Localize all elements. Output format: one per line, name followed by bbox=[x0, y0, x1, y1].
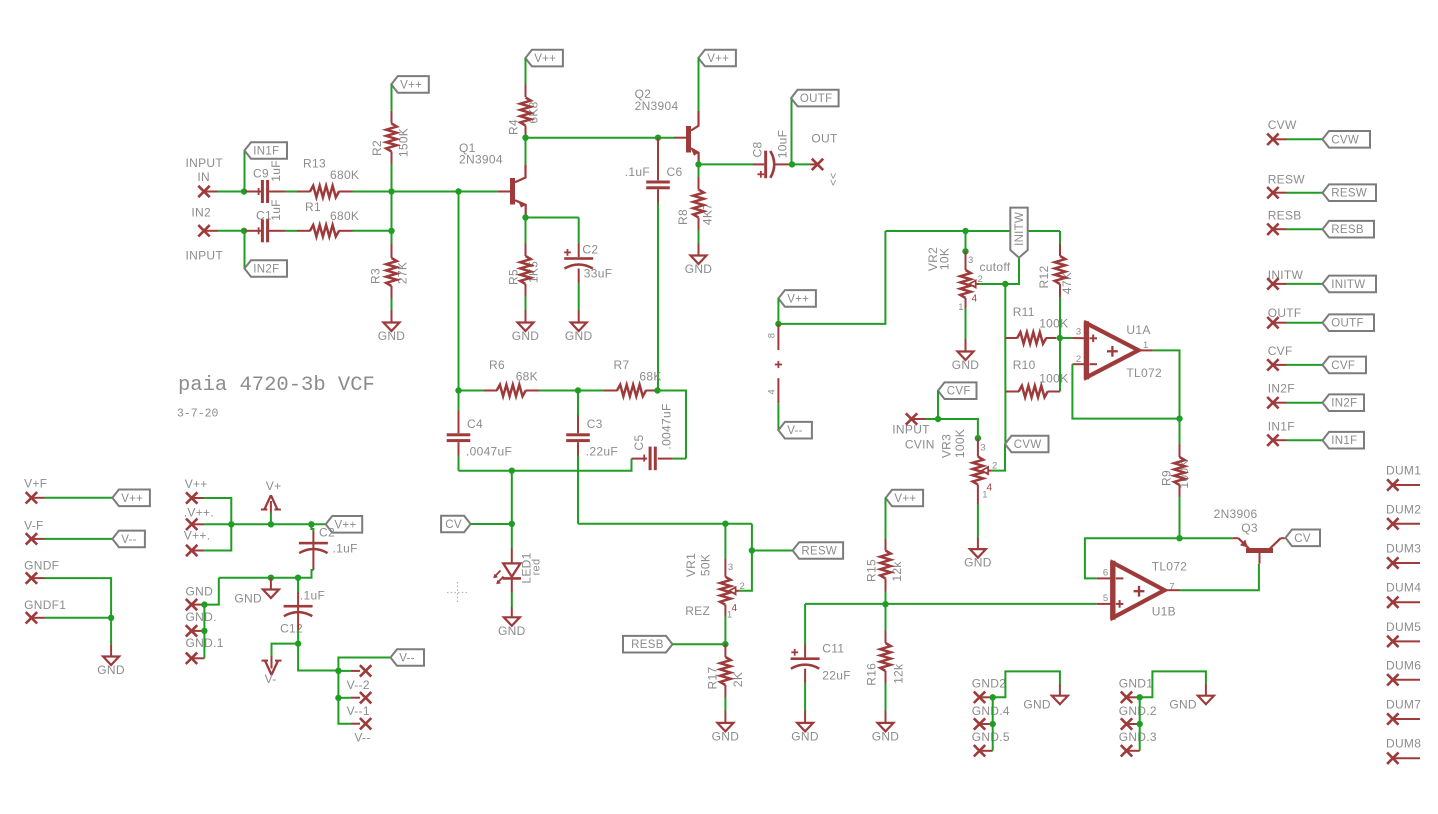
resistor R17 2K bbox=[720, 657, 731, 685]
svg-text:R15: R15 bbox=[865, 559, 879, 582]
svg-text:DUM3: DUM3 bbox=[1386, 542, 1421, 556]
wire R9 node to U1B pin6 bbox=[1085, 538, 1180, 578]
svg-text:IN2F: IN2F bbox=[253, 264, 279, 276]
pin DUM1 bbox=[1387, 479, 1398, 490]
wire to R9 bbox=[1179, 419, 1181, 444]
svg-text:RESB: RESB bbox=[1331, 224, 1364, 236]
wire RESW stub bbox=[1287, 192, 1323, 194]
wire CVF stub bbox=[1287, 364, 1323, 366]
pin V-- (unnamed) bbox=[360, 665, 371, 676]
pin DUM5 bbox=[1387, 636, 1398, 647]
wire to RESW flag bbox=[752, 550, 793, 552]
transistor Q1 2N3904 bbox=[498, 191, 510, 193]
pin INPUT CVIN bbox=[906, 413, 917, 424]
svg-text:V++: V++ bbox=[787, 293, 809, 305]
svg-text:C6: C6 bbox=[667, 165, 683, 179]
wire bbox=[578, 390, 604, 392]
ground (R16) bbox=[878, 723, 894, 732]
wire bbox=[218, 230, 244, 232]
resistor R1 680K bbox=[310, 225, 339, 237]
junction bbox=[935, 416, 941, 422]
svg-text:33uF: 33uF bbox=[584, 267, 613, 281]
svg-text:>>: >> bbox=[827, 173, 839, 186]
power flag V-- (U1 pin4) bbox=[778, 422, 812, 439]
svg-text:V++: V++ bbox=[335, 519, 357, 531]
svg-text:V+: V+ bbox=[266, 479, 282, 493]
svg-text:680K: 680K bbox=[330, 168, 359, 182]
wire Q3 collector to CV bbox=[1284, 537, 1286, 539]
wire V-- vertical bbox=[338, 671, 351, 724]
svg-text:V-F: V-F bbox=[24, 518, 44, 532]
svg-text:R4: R4 bbox=[507, 119, 521, 135]
junction bbox=[775, 321, 781, 327]
power pin 4 (U1) bbox=[777, 378, 779, 403]
pin V-F bbox=[26, 533, 37, 544]
pin GND.3 bbox=[1121, 745, 1132, 756]
wire bbox=[885, 592, 887, 605]
svg-text:R5: R5 bbox=[507, 269, 521, 285]
svg-text:V--: V-- bbox=[121, 534, 137, 546]
svg-text:V++: V++ bbox=[121, 493, 143, 505]
net label CV bbox=[441, 516, 471, 533]
pin INITW bbox=[1267, 278, 1278, 289]
junction bbox=[655, 135, 661, 141]
resistor R13 680K bbox=[310, 186, 339, 198]
svg-text:GND: GND bbox=[512, 329, 540, 343]
net label RESB (right column) bbox=[1323, 221, 1375, 238]
resistor R2 150K bbox=[386, 124, 397, 152]
potentiometer VR3 100K bbox=[973, 457, 984, 485]
svg-text:GND: GND bbox=[186, 584, 214, 598]
svg-text:50K: 50K bbox=[699, 554, 713, 576]
pin V--1 bbox=[360, 718, 371, 729]
wire rail to C12 bbox=[297, 578, 299, 592]
svg-text:100K: 100K bbox=[1039, 371, 1068, 385]
svg-text:.1uF: .1uF bbox=[333, 541, 358, 555]
wire V++ rail bbox=[231, 523, 325, 525]
wire bbox=[672, 458, 686, 460]
wire GND pins vertical bbox=[203, 605, 205, 659]
wire to R3 bbox=[391, 231, 393, 244]
net label INITW (right column) bbox=[1323, 276, 1377, 293]
ground (LED1) bbox=[504, 617, 520, 626]
junction bbox=[241, 188, 247, 194]
svg-text:R6: R6 bbox=[489, 358, 505, 372]
junction bbox=[268, 521, 274, 527]
net label IN1F bbox=[245, 142, 288, 159]
wire VR3 wiper to CVW bbox=[991, 444, 1005, 471]
svg-text:R13: R13 bbox=[303, 157, 326, 171]
wire bias row bbox=[885, 230, 1060, 232]
wire Q2 emitter to C8 bbox=[699, 163, 754, 165]
resistor R7 68K bbox=[617, 385, 646, 397]
wire bbox=[458, 456, 460, 471]
wire bbox=[885, 683, 887, 711]
transistor Q3 2N3906 bbox=[1259, 553, 1261, 564]
wiper arrow VR3 bbox=[982, 467, 988, 474]
svg-text:paia 4720-3b VCF: paia 4720-3b VCF bbox=[178, 374, 375, 397]
net label CVW (right column) bbox=[1323, 131, 1371, 148]
junction bbox=[522, 214, 528, 220]
wire node to ground bbox=[110, 618, 112, 645]
resistor R10 100K bbox=[1019, 386, 1048, 398]
wire C3 down to RESW row bbox=[577, 456, 579, 524]
svg-text:GND: GND bbox=[378, 329, 406, 343]
wire bbox=[391, 299, 393, 311]
resistor R15 12k bbox=[880, 551, 891, 579]
wire V+F to flag bbox=[45, 497, 113, 499]
input marks U1A bbox=[1090, 337, 1098, 339]
wire R2-R3 bbox=[391, 192, 393, 231]
wire C2 to gnd rail bbox=[298, 570, 313, 578]
svg-text:R11: R11 bbox=[1013, 305, 1035, 319]
svg-text:2N3904: 2N3904 bbox=[459, 153, 503, 167]
svg-text:R12: R12 bbox=[1037, 266, 1051, 289]
capacitor C6 .1uF bbox=[646, 181, 670, 184]
wire rail to C2 bbox=[311, 524, 313, 531]
junction bbox=[455, 387, 461, 393]
wire bbox=[218, 191, 244, 193]
wire bias row to R12 bbox=[1059, 231, 1061, 243]
pin OUTF bbox=[1267, 317, 1278, 328]
svg-text:10uF: 10uF bbox=[776, 130, 790, 159]
wire bbox=[804, 683, 806, 711]
net label RESB bbox=[623, 636, 673, 653]
wire U1B out to Q3 base bbox=[1180, 564, 1259, 591]
net label CVF (right column) bbox=[1323, 357, 1367, 374]
net label CVW bbox=[1005, 436, 1049, 453]
power flag V++ (Q2) bbox=[698, 50, 736, 67]
svg-text:GND: GND bbox=[1169, 698, 1197, 712]
wire VR2 wiper to INITW bbox=[979, 258, 1019, 284]
junction bbox=[749, 547, 755, 553]
wire bbox=[777, 298, 779, 324]
power pin 8 (U1) bbox=[777, 324, 779, 350]
wire pin4 to V-- bbox=[777, 403, 779, 430]
wire to VR2 pin3 bbox=[965, 231, 967, 251]
junction bbox=[388, 188, 394, 194]
svg-text:IN2F: IN2F bbox=[1331, 398, 1357, 410]
pin RESB bbox=[1267, 224, 1278, 235]
svg-text:R10: R10 bbox=[1013, 358, 1036, 372]
svg-text:.22uF: .22uF bbox=[586, 444, 618, 458]
wire bbox=[204, 523, 231, 525]
wire C6 down to R7 node bbox=[657, 203, 659, 391]
svg-text:12k: 12k bbox=[892, 663, 906, 684]
svg-text:CVF: CVF bbox=[1331, 360, 1355, 372]
svg-text:2N3906: 2N3906 bbox=[1214, 507, 1258, 521]
wire INITW stub bbox=[1287, 283, 1323, 285]
pin V--2 bbox=[360, 692, 371, 703]
svg-text:R2: R2 bbox=[370, 140, 384, 156]
wire down to C11 bbox=[804, 604, 806, 645]
junction bbox=[509, 521, 515, 527]
svg-text:.V++.: .V++. bbox=[184, 506, 214, 520]
svg-text:68K: 68K bbox=[639, 370, 661, 384]
wire GND1 cluster vertical bbox=[1139, 697, 1141, 751]
junction bbox=[455, 188, 461, 194]
svg-text:3: 3 bbox=[980, 443, 986, 454]
svg-text:.0047uF: .0047uF bbox=[466, 444, 512, 458]
net label CVF bbox=[938, 382, 977, 399]
wire bbox=[338, 697, 351, 699]
svg-text:GND.: GND. bbox=[186, 610, 217, 624]
wire Q1 collector to Q2 base bbox=[526, 137, 676, 139]
wire GND1 cluster to ground bbox=[1140, 671, 1206, 697]
junction bbox=[990, 721, 996, 727]
wire node to LED1 bbox=[511, 524, 513, 548]
resistor R8 4K7 bbox=[693, 190, 704, 218]
wire bbox=[338, 670, 351, 672]
svg-text:GND.5: GND.5 bbox=[972, 730, 1010, 744]
ground (R17) bbox=[717, 723, 733, 732]
svg-text:red: red bbox=[531, 559, 543, 576]
net label CV (right) bbox=[1286, 530, 1321, 547]
junction bbox=[241, 228, 247, 234]
wire CVW stub bbox=[1287, 138, 1323, 140]
resistor R5 1K5 bbox=[520, 256, 531, 284]
ground (C11) bbox=[797, 723, 813, 732]
svg-text:GND: GND bbox=[234, 592, 262, 606]
pin V+F bbox=[26, 492, 37, 503]
resistor R3 27K bbox=[386, 258, 397, 286]
svg-text:R3: R3 bbox=[369, 268, 383, 284]
svg-text:GNDF: GNDF bbox=[24, 559, 59, 573]
ground (R5) bbox=[518, 323, 534, 332]
junction bbox=[308, 521, 314, 527]
svg-text:2K: 2K bbox=[731, 672, 745, 687]
wire R9 node to Q3 emitter bbox=[1180, 537, 1233, 539]
svg-text:1uF: 1uF bbox=[269, 199, 283, 221]
wire to IN1F bbox=[244, 151, 246, 192]
wire bbox=[297, 630, 299, 644]
wire bbox=[578, 283, 580, 310]
origin cross bbox=[447, 582, 468, 603]
pin DUM2 bbox=[1387, 518, 1398, 529]
capacitor C8 10uF bbox=[753, 163, 764, 165]
svg-text:6: 6 bbox=[1103, 568, 1109, 579]
wire to OUTF flag bbox=[791, 98, 793, 164]
pin GND2 bbox=[974, 692, 985, 703]
wire RESB to node bbox=[673, 643, 726, 645]
pin IN1F bbox=[1267, 435, 1278, 446]
wire bbox=[525, 58, 527, 84]
svg-text:CVW: CVW bbox=[1331, 134, 1359, 146]
svg-text:INITW: INITW bbox=[1014, 212, 1026, 246]
pin DUM3 bbox=[1387, 557, 1398, 568]
wire bbox=[391, 164, 393, 192]
wire OUTF stub bbox=[1287, 322, 1323, 324]
wire to V-- flag bbox=[338, 658, 390, 671]
junction bbox=[575, 387, 581, 393]
pin INPUT IN bbox=[198, 186, 209, 197]
wire bbox=[353, 191, 392, 193]
resistor R4 6K8 bbox=[520, 98, 531, 126]
svg-text:2: 2 bbox=[1076, 354, 1082, 365]
junction bbox=[1176, 415, 1182, 421]
svg-text:R8: R8 bbox=[676, 209, 690, 225]
svg-text:C2: C2 bbox=[319, 526, 335, 540]
junction bbox=[1137, 694, 1143, 700]
svg-text:GND.4: GND.4 bbox=[972, 704, 1010, 718]
svg-text:DUM2: DUM2 bbox=[1386, 502, 1421, 516]
power flag V-- (rail) bbox=[391, 649, 425, 666]
svg-text:C9: C9 bbox=[253, 167, 269, 181]
wire bbox=[511, 592, 513, 607]
pin OUT bbox=[812, 159, 823, 170]
junction bbox=[1057, 335, 1063, 341]
svg-text:GND2: GND2 bbox=[972, 677, 1007, 691]
wire to IN2F bbox=[244, 231, 246, 269]
wire node to VR1 pin3 bbox=[724, 524, 726, 559]
wire Q1 emitter to C2 bbox=[526, 217, 579, 219]
junction bbox=[1137, 721, 1143, 727]
net label IN2F bbox=[245, 260, 288, 277]
svg-text:3: 3 bbox=[968, 255, 974, 266]
svg-text:R7: R7 bbox=[614, 358, 630, 372]
svg-text:VR3: VR3 bbox=[940, 434, 954, 458]
wire bbox=[789, 163, 793, 165]
pin GNDF1 bbox=[26, 612, 37, 623]
svg-text:INPUT: INPUT bbox=[186, 156, 224, 170]
svg-text:V++: V++ bbox=[534, 53, 556, 65]
pin GND.1 bbox=[186, 653, 197, 664]
svg-text:V--: V-- bbox=[354, 731, 370, 745]
wire bbox=[539, 390, 578, 392]
net label IN2F (right column) bbox=[1323, 394, 1365, 411]
wire U1A feedback bbox=[1072, 364, 1179, 418]
power flag V++ (U1 pin8) bbox=[778, 290, 816, 307]
svg-text:CVIN: CVIN bbox=[905, 438, 935, 452]
svg-text:OUTF: OUTF bbox=[800, 93, 833, 105]
junction bbox=[201, 601, 207, 607]
wire node to U1A pin3 bbox=[1060, 337, 1073, 339]
pin GND1 bbox=[1121, 692, 1132, 703]
wire U1A out down bbox=[1153, 350, 1180, 418]
svg-text:3-7-20: 3-7-20 bbox=[177, 408, 219, 421]
svg-text:10K: 10K bbox=[938, 248, 952, 270]
svg-text:GND1: GND1 bbox=[1119, 677, 1154, 691]
svg-text:Q3: Q3 bbox=[1241, 521, 1258, 535]
svg-text:IN: IN bbox=[197, 170, 210, 184]
supply plus mark bbox=[775, 364, 782, 366]
svg-text:OUTF: OUTF bbox=[1331, 318, 1364, 330]
wire cutoff net down to CVW bbox=[1004, 284, 1006, 444]
wiper arrow VR1 bbox=[729, 587, 735, 594]
svg-text:V++: V++ bbox=[400, 79, 422, 91]
pin DUM4 bbox=[1387, 597, 1398, 608]
svg-text:CVW: CVW bbox=[1014, 439, 1042, 451]
svg-text:TL072: TL072 bbox=[1152, 559, 1188, 573]
svg-text:CVF: CVF bbox=[947, 386, 971, 398]
wire input node down to R6/C4 bbox=[458, 192, 460, 391]
svg-text:5: 5 bbox=[1103, 593, 1109, 604]
transistor Q2 2N3904 bbox=[675, 137, 687, 139]
wire V+ to rail bbox=[270, 513, 272, 525]
junction bbox=[722, 641, 728, 647]
svg-text:680K: 680K bbox=[330, 209, 359, 223]
svg-text:INPUT: INPUT bbox=[892, 423, 930, 437]
wire corner down bbox=[751, 524, 753, 551]
svg-text:2N3904: 2N3904 bbox=[635, 99, 679, 113]
svg-text:R9: R9 bbox=[1160, 470, 1174, 486]
potentiometer VR2 10K bbox=[960, 270, 971, 298]
pin .V++. bbox=[186, 519, 197, 530]
wire C12 node to V- bbox=[272, 644, 299, 656]
wire C4 bottom to C5 bbox=[459, 459, 632, 471]
junction bbox=[654, 387, 660, 393]
wire gnd rail to GND pins bbox=[204, 578, 218, 605]
wire gnd rail bbox=[219, 577, 298, 579]
svg-text:GND: GND bbox=[964, 556, 992, 570]
wire to Q1 base bbox=[392, 191, 498, 193]
capacitor C5 .0047uF bbox=[649, 447, 652, 471]
svg-text:12k: 12k bbox=[890, 561, 904, 582]
wire GNDF down bbox=[45, 578, 112, 618]
resistor R12 47K bbox=[1055, 256, 1066, 284]
ground (C2) bbox=[571, 323, 587, 332]
net label OUTF bbox=[791, 90, 839, 107]
pin DUM6 bbox=[1387, 674, 1398, 685]
wire GND2 cluster vertical bbox=[992, 697, 994, 751]
svg-text:VR1: VR1 bbox=[684, 553, 698, 577]
svg-text:.1uF: .1uF bbox=[300, 589, 325, 603]
power flag V++ (R4) bbox=[525, 50, 563, 67]
junction bbox=[722, 521, 728, 527]
pin GND. bbox=[186, 625, 197, 636]
pin INPUT IN2 bbox=[198, 225, 209, 236]
junction bbox=[335, 695, 341, 701]
junction bbox=[228, 521, 234, 527]
svg-text:cutoff: cutoff bbox=[980, 260, 1011, 274]
power flag V-- (V-F) bbox=[112, 531, 144, 548]
svg-text:GND: GND bbox=[498, 624, 526, 638]
svg-text:TL072: TL072 bbox=[1126, 366, 1162, 380]
svg-text:.0047uF: .0047uF bbox=[660, 403, 674, 449]
power flag V++ (rail) bbox=[326, 516, 363, 533]
svg-text:8: 8 bbox=[767, 333, 778, 339]
svg-text:1: 1 bbox=[982, 490, 988, 501]
svg-text:C11: C11 bbox=[822, 641, 844, 655]
svg-text:1uF: 1uF bbox=[269, 160, 283, 182]
svg-text:R1: R1 bbox=[305, 200, 321, 214]
power flag V++ (R2) bbox=[391, 76, 429, 93]
resistor R9 100K bbox=[1174, 457, 1185, 485]
svg-text:RESB: RESB bbox=[631, 639, 664, 651]
potentiometer VR1 50K bbox=[720, 577, 731, 605]
pin DUM7 bbox=[1387, 713, 1398, 724]
svg-text:CV: CV bbox=[1294, 533, 1311, 545]
pin GND.2 bbox=[1121, 718, 1132, 729]
ground (VR2) bbox=[958, 352, 974, 361]
ground (R8) bbox=[691, 256, 707, 265]
junction bbox=[388, 228, 394, 234]
svg-text:V+F: V+F bbox=[24, 476, 47, 490]
wire bbox=[1179, 497, 1181, 538]
wire bbox=[459, 390, 485, 392]
svg-text:100K: 100K bbox=[1039, 317, 1068, 331]
capacitor C4 .0047uF bbox=[447, 433, 471, 436]
junction bbox=[522, 135, 528, 141]
svg-text:IN2: IN2 bbox=[191, 206, 211, 220]
LED LED1 bbox=[503, 563, 520, 576]
wire RESB stub bbox=[1287, 228, 1323, 230]
junction bbox=[1002, 281, 1008, 287]
wire R12 to pin3 node bbox=[1059, 297, 1061, 338]
net label RESW (right column) bbox=[1323, 184, 1377, 201]
pin GND.5 bbox=[974, 745, 985, 756]
capacitor C2 33uF bbox=[564, 257, 593, 260]
